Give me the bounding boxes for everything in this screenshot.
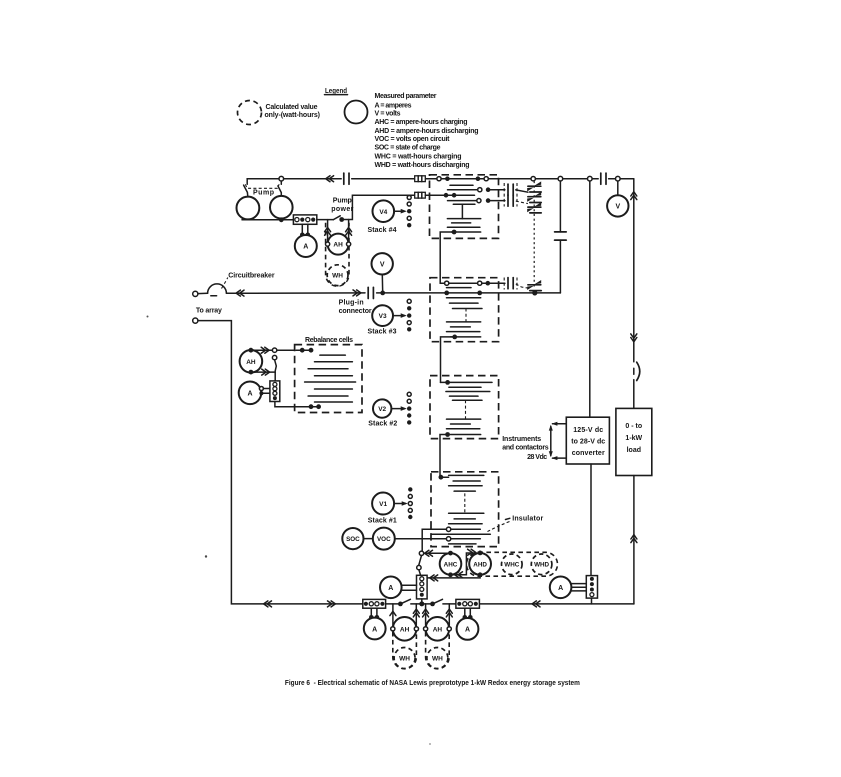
wire stack 3 to stack 2 — [441, 337, 455, 383]
wire rebalance AH top to node — [251, 349, 311, 351]
junction dot switch east — [430, 602, 435, 607]
svg-text:Stack #2: Stack #2 — [368, 420, 397, 427]
svg-text:A: A — [303, 244, 308, 251]
wire block J1 to pump-power switch — [317, 219, 334, 221]
stack 4 row B nodes — [478, 187, 491, 192]
dashed stadium around AH/WH pair west — [393, 617, 417, 669]
wire plug to diode D4 (dashed jog) — [516, 284, 529, 288]
svg-text:VOC = volts open circuit: VOC = volts open circuit — [375, 136, 451, 143]
stack 2 dashed box — [430, 376, 499, 439]
chevron left on AHC bottom link — [455, 572, 463, 578]
switch S3 pump power blade — [333, 216, 340, 220]
junction dots on main line inside stack 3 — [444, 291, 482, 296]
chevron up double — [413, 609, 419, 617]
chevron up double — [423, 609, 429, 617]
junction dot center bottom bus — [419, 601, 424, 606]
meter AH rebalance — [240, 348, 263, 375]
junction dot pump power — [339, 217, 344, 222]
meter WH dashed (bottom east) — [427, 648, 448, 669]
svg-text:V: V — [380, 262, 385, 269]
chevron left on AHD return — [430, 575, 438, 581]
stack 2 entry dot — [445, 380, 450, 385]
wire drop to meter AH right terminal — [348, 220, 350, 242]
chevron up double — [446, 609, 452, 617]
wire pump bottom bus y=219.8 — [242, 219, 293, 221]
dashed stadium around pump AH/WH meters — [326, 223, 349, 286]
meter A (converter) — [550, 577, 572, 599]
meter A (battery current) — [380, 577, 402, 599]
wire drop to meter AH left terminal — [327, 220, 329, 242]
chevron left AHC feed — [425, 550, 433, 556]
terminal to array (upper) — [193, 291, 198, 296]
chevron down double on right rail — [631, 334, 637, 342]
stack 4 battery plates — [447, 204, 480, 232]
stack 4 cell line — [450, 184, 473, 186]
stack 1 battery plates — [449, 475, 484, 523]
wire top rail y=178.7 from pump corner to right corner — [247, 179, 634, 185]
diode pair D2 — [527, 192, 541, 203]
svg-text:connector: connector — [339, 308, 372, 315]
stack 3 cell-stack dash-dot link — [465, 309, 467, 322]
wire converter to bottom block — [590, 464, 592, 576]
speck — [429, 743, 431, 745]
stack 4 row B wire — [448, 189, 505, 191]
plug-in connector pair stack3 — [508, 278, 513, 289]
wire pump power riser to stack 4 — [342, 195, 415, 219]
node top rail converter tap — [588, 176, 593, 181]
plug housing dash stack3 — [504, 278, 517, 290]
stack 2 negative exit dot — [445, 432, 450, 437]
svg-text:WH: WH — [432, 656, 443, 663]
stack 2 top row wire — [441, 381, 493, 383]
switch S2 pump right blade with stub — [278, 181, 281, 196]
plug-in connector pair on top rail x=346.5 — [344, 173, 349, 184]
circuit breaker arc — [208, 284, 227, 296]
meter WH dashed (pump watt-hours) — [327, 265, 348, 286]
lead dots above meter A — [300, 233, 310, 238]
svg-text:A: A — [465, 627, 470, 634]
stack 4 dashed box — [430, 175, 499, 239]
dashed leader to Circuitbreaker label — [222, 278, 228, 289]
label Plug-in connector — [339, 300, 372, 316]
wires block J3 to meter A — [402, 585, 417, 590]
chevron up double on right rail — [631, 192, 637, 200]
svg-text:WHD = watt-hours discharging: WHD = watt-hours discharging — [375, 162, 470, 169]
svg-text:SOC = state of charge: SOC = state of charge — [375, 145, 441, 152]
stack 4 row C dots (pump power feed) — [444, 193, 457, 198]
wire stack 2 to stack 1 — [440, 435, 449, 478]
meter A (pump current) — [295, 235, 317, 257]
circuit breaker on load line — [637, 362, 640, 380]
svg-text:A: A — [247, 391, 252, 398]
svg-text:AH: AH — [333, 242, 343, 249]
plug-in connector pair stack4 row B — [508, 184, 513, 195]
connector block J2 (rebalance) — [270, 381, 280, 402]
capacitor C2 in series on top rail — [601, 173, 606, 184]
svg-text:Instruments: Instruments — [502, 436, 541, 443]
rebalance cell plates — [305, 355, 356, 402]
speck — [205, 555, 207, 557]
svg-text:AH: AH — [433, 626, 443, 633]
wire plug to diode row D (dashed jog) — [516, 201, 528, 204]
svg-text:Insulator: Insulator — [512, 516, 543, 523]
node rebalance lower — [272, 355, 276, 359]
svg-text:Rebalance cells: Rebalance cells — [305, 337, 353, 344]
plug-in connector pair on main line — [368, 287, 373, 298]
node AHC branch — [419, 551, 423, 555]
legend solid-circle symbol (measured parameter) — [345, 101, 368, 124]
stack 1 bottom plate — [449, 543, 476, 545]
svg-text:Stack #4: Stack #4 — [368, 227, 397, 234]
stack 3 sense pin dots — [407, 299, 411, 331]
pump motor M1 circle — [237, 197, 260, 220]
node top rail capacitor tap — [558, 176, 563, 181]
meter AHD — [469, 551, 491, 578]
svg-text:SOC: SOC — [346, 536, 360, 543]
svg-text:To array: To array — [196, 308, 222, 315]
leads block J4 to meter A — [371, 608, 377, 616]
dashed stadium around AHD WHC WHD — [467, 552, 558, 576]
wire node to AHC top — [424, 552, 448, 554]
meter V3 with arrow — [372, 305, 407, 326]
svg-text:V4: V4 — [379, 209, 387, 216]
chevron up double on left AH drop — [325, 227, 331, 235]
lead to AH east left — [425, 604, 427, 626]
svg-text:0 - to: 0 - to — [625, 423, 642, 430]
label Insulator with dashed leader — [487, 516, 543, 532]
label Instruments and contactors 28 Vdc — [502, 436, 549, 461]
svg-text:V3: V3 — [379, 313, 387, 320]
instruments feed bracket arrows — [549, 422, 567, 460]
legend label: Calculated value only-(watt-hours) — [265, 104, 321, 119]
wire right vertical rail x=633.8 down to load box — [633, 179, 635, 409]
node top rail V meter tap — [616, 176, 621, 181]
meter A (bottom west) — [364, 618, 386, 640]
svg-text:WH: WH — [399, 656, 410, 663]
stub block J6 to bottom bus — [591, 598, 593, 604]
meter WHD dashed — [531, 554, 552, 575]
wire plug to diode row B — [516, 190, 528, 192]
svg-text:power: power — [331, 206, 353, 213]
svg-text:load: load — [627, 447, 641, 454]
switch blade rebalance — [275, 360, 277, 381]
stack 1 sense pin dots — [408, 487, 412, 519]
junction dot V meter tap — [380, 291, 385, 296]
svg-text:AHD: AHD — [473, 561, 487, 568]
chevron up double on load return — [631, 535, 637, 543]
chevron right on rebalance bottom wire — [262, 369, 270, 375]
chevron up double on right AH drop — [346, 227, 352, 235]
wire AHD bottom return to block — [427, 575, 480, 578]
diode pair D1 — [527, 181, 541, 192]
plug-in connector housing dashes — [504, 183, 517, 207]
stack 4 row D wire — [448, 200, 505, 202]
svg-text:AHC: AHC — [444, 561, 458, 568]
stack 2 cell-stack dash-dot link — [465, 400, 467, 419]
svg-text:converter: converter — [572, 450, 605, 457]
node on top rail above right pump — [279, 176, 284, 181]
chevron right on bottom bus — [328, 601, 336, 607]
chevron on top rail pointing left — [326, 176, 334, 182]
stack 2 battery plates — [446, 387, 490, 434]
meter V2 with arrow — [373, 399, 407, 417]
connector block J3 (battery main) — [417, 575, 428, 599]
junction dots rebalance top wire — [300, 348, 314, 353]
junction dot switch west — [398, 602, 403, 607]
connector block J5 (bottom east) — [456, 599, 480, 608]
meter AH (bottom west) — [391, 617, 419, 641]
chevron right on main line — [353, 290, 361, 296]
chevron right to AHD top — [468, 549, 476, 555]
meter VOC — [373, 528, 395, 550]
link AHC bottom to AHD top — [451, 553, 477, 575]
junction dot under right pump — [279, 217, 284, 222]
capacitor C1 branch — [555, 181, 567, 293]
label Pump power — [331, 197, 353, 213]
meter WHC dashed — [502, 554, 523, 575]
svg-text:Calculated value: Calculated value — [266, 104, 318, 111]
svg-text:A: A — [558, 585, 563, 592]
meter A rebalance — [239, 382, 264, 405]
stack 3 top row nodes — [445, 281, 491, 286]
wire SOC to VOC — [364, 538, 373, 540]
svg-text:Measured parameter: Measured parameter — [375, 93, 437, 100]
fuse F2 on pump power wire — [415, 192, 426, 198]
svg-text:AHC = ampere-hours charging: AHC = ampere-hours charging — [375, 119, 468, 126]
dashed mechanical link between pump switches — [245, 184, 279, 188]
plug-in connector pair stack4 row D — [508, 195, 513, 206]
dashed stadium around AH/WH pair east — [426, 617, 450, 669]
legend heading Legend (underlined) — [325, 88, 348, 95]
svg-text:A = amperes: A = amperes — [375, 102, 412, 109]
stack 3 dashed box — [430, 278, 499, 342]
lead to AH east right — [448, 604, 450, 626]
wire converter feed down — [589, 181, 591, 417]
svg-text:28 Vdc: 28 Vdc — [527, 454, 547, 461]
svg-text:WHC = watt-hours charging: WHC = watt-hours charging — [375, 153, 462, 160]
stack 3 negative exit dot — [452, 335, 457, 340]
stub block J3 to bottom bus — [421, 599, 423, 604]
stack 4 sense pin dots — [407, 196, 411, 228]
meter AH (pump ampere-hours) — [326, 234, 351, 255]
meter V (load voltage) — [607, 195, 628, 216]
speck — [147, 316, 149, 318]
stack 4 negative exit dot — [452, 230, 457, 235]
node top rail diode tap — [531, 177, 535, 181]
stack 3 top row wire — [440, 282, 505, 284]
chevron left on bottom bus (east) — [532, 601, 540, 607]
wire stack 4 to stack 3 — [440, 232, 454, 283]
leads meter A to block J6 — [571, 584, 586, 591]
svg-text:only-(watt-hours): only-(watt-hours) — [265, 112, 321, 119]
switch blade battery disconnect — [419, 556, 422, 566]
wire rebalance AH bottom — [251, 371, 275, 373]
pump motor M2 circle — [270, 196, 293, 219]
legend dashed-circle symbol (calculated value) — [238, 101, 262, 125]
svg-text:Legend: Legend — [325, 88, 347, 95]
wire stack 1 upper tap (to AHC node) — [422, 529, 480, 551]
diode string dotted tie line — [533, 181, 535, 289]
load box 0 - to 1-kW — [616, 408, 652, 475]
stack 2 sense pin dots — [407, 392, 411, 424]
meter AHC — [440, 551, 462, 578]
switch blade bottom bus west — [400, 599, 410, 604]
junction dots rebalance bottom wire — [309, 404, 321, 409]
wire left return: terminal down left side to bottom bus — [198, 321, 634, 604]
svg-text:Stack #1: Stack #1 — [368, 518, 397, 525]
wire stack 1 lower tap (to VOC) — [395, 538, 480, 540]
svg-text:AHD = ampere-hours discharging: AHD = ampere-hours discharging — [375, 128, 479, 135]
junction dot diode string on main line — [532, 290, 537, 295]
svg-text:VOC: VOC — [377, 536, 391, 543]
legend text: measured parameter list — [375, 93, 479, 169]
meter AH (bottom east) — [424, 617, 452, 641]
svg-text:Plug-in: Plug-in — [339, 300, 364, 307]
svg-text:Stack #3: Stack #3 — [368, 329, 397, 336]
svg-text:WH: WH — [332, 273, 343, 280]
lead to AH west left — [392, 604, 394, 626]
rebalance cells dashed box — [295, 345, 362, 413]
stack 1 entry dot — [439, 475, 444, 480]
converter box 125-V dc to 28-V dc — [566, 417, 609, 464]
svg-text:AH: AH — [400, 626, 410, 633]
svg-text:V2: V2 — [378, 406, 386, 413]
svg-text:Figure 6 - Electrical schemat: Figure 6 - Electrical schematic of NASA … — [285, 680, 580, 687]
chevron left on main line — [236, 290, 244, 296]
wire fuse F2 into stack 4 row C — [425, 194, 474, 196]
svg-text:WHD: WHD — [534, 562, 549, 569]
terminal to array (lower) — [193, 318, 198, 323]
lead dots — [369, 615, 379, 620]
node rebalance upper — [272, 348, 276, 352]
stack 3 battery plates — [447, 288, 483, 337]
diode pair D3 — [527, 202, 541, 213]
svg-text:V1: V1 — [379, 501, 387, 508]
meter A (bottom east) — [457, 618, 479, 640]
svg-text:Pump: Pump — [333, 197, 352, 204]
stack 1 insulator middle conductor — [432, 533, 490, 535]
wire block J2 to rebalance bottom — [275, 402, 319, 407]
svg-text:Circuitbreaker: Circuitbreaker — [228, 272, 275, 279]
svg-text:Pump: Pump — [253, 190, 274, 197]
meter V4 with arrow — [373, 200, 407, 222]
svg-text:1-kW: 1-kW — [625, 435, 642, 442]
fuse F1 on top rail — [415, 176, 426, 182]
svg-text:A: A — [372, 626, 377, 633]
node stack 1 upper tap — [446, 527, 450, 531]
switch S1 pump left blade — [244, 185, 248, 196]
wires meter A to block J2 — [263, 389, 270, 394]
wire V meter stem — [381, 275, 383, 293]
stack 4 row A junction dots/nodes — [437, 176, 488, 181]
meter SOC — [342, 528, 363, 549]
svg-text:to 28-V dc: to 28-V dc — [571, 438, 605, 445]
wire leads from block J1 down to meter A — [302, 224, 308, 234]
svg-text:and contactors: and contactors — [502, 445, 549, 452]
node stack 1 lower tap — [446, 537, 450, 541]
stub node to block J3 — [419, 570, 421, 576]
switch blade bottom bus east — [433, 599, 443, 604]
stack 4 row D nodes — [477, 198, 491, 203]
svg-text:V: V — [615, 204, 620, 211]
meter V1 with arrow — [372, 493, 408, 515]
connector block J1 (pump) — [293, 215, 316, 224]
svg-text:A: A — [388, 585, 393, 592]
leads block J5 to meter A — [465, 608, 471, 616]
node below switch — [417, 565, 421, 569]
wire load to bottom bus — [633, 476, 635, 604]
chevron up single — [390, 611, 396, 615]
connector block J6 (converter) — [586, 576, 597, 599]
chevron left on bottom bus (west) — [264, 601, 272, 607]
lead dots — [463, 615, 473, 620]
wire terminal to breaker — [198, 292, 208, 294]
wire V meter (right) stem — [617, 181, 619, 195]
svg-text:WHC: WHC — [504, 562, 519, 569]
diode pair D4 — [527, 280, 541, 291]
chevron right on rebalance top wire — [261, 347, 269, 353]
meter WH dashed (bottom west) — [394, 648, 415, 669]
svg-text:125-V dc: 125-V dc — [573, 427, 603, 434]
wire main dc line y=292.9 — [226, 292, 560, 294]
meter V (battery voltage) — [372, 253, 393, 274]
stack 1 dashed box — [431, 472, 499, 547]
svg-text:AH: AH — [246, 359, 256, 366]
connector block J4 (bottom west) — [363, 599, 386, 608]
svg-text:V = volts: V = volts — [375, 111, 401, 118]
lead to AH west right — [415, 604, 417, 626]
stack 1 cell-stack dash-dot link — [464, 493, 466, 512]
